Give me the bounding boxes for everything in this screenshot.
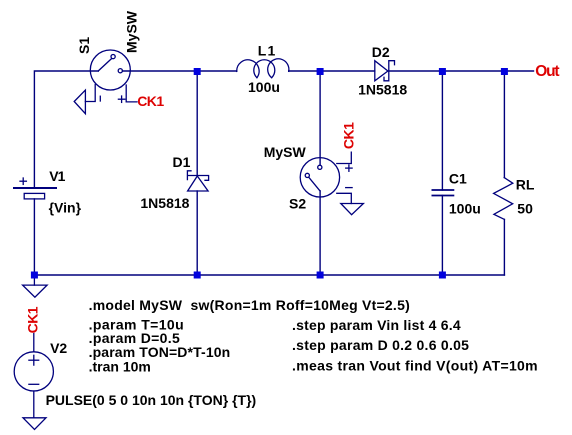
wire D1 top bbox=[196, 71, 198, 176]
value 100u of C1 bbox=[449, 201, 481, 217]
wire RL top bbox=[503, 71, 505, 178]
wire C1 bottom bbox=[441, 196, 443, 276]
label C1 bbox=[449, 171, 467, 187]
directive .param TON bbox=[89, 344, 231, 360]
junction top rail / RL bbox=[501, 68, 508, 75]
svg-text:1N5818: 1N5818 bbox=[358, 82, 407, 98]
junction top rail / D1 bbox=[194, 68, 201, 75]
svg-text:C1: C1 bbox=[449, 171, 467, 187]
svg-text:S1: S1 bbox=[76, 37, 92, 54]
label MySW of S2 bbox=[264, 144, 307, 160]
switch S1 body U1 bbox=[85, 50, 137, 102]
label D1 bbox=[173, 154, 191, 170]
junction top rail / C1 bbox=[439, 68, 446, 75]
svg-text:L1: L1 bbox=[258, 43, 277, 59]
junction bottom rail / S2 bbox=[317, 272, 324, 279]
capacitor C1 bbox=[432, 190, 453, 196]
net label CK1 at S1 bbox=[137, 93, 164, 109]
directive .param D bbox=[89, 330, 181, 346]
value {Vin} bbox=[49, 200, 82, 216]
wire top-left from V1 plus up and right to S1 bbox=[34, 71, 98, 188]
wire D1 bottom bbox=[196, 191, 198, 275]
junction top rail / S2 bbox=[317, 68, 324, 75]
wire bottom rail bbox=[34, 274, 504, 276]
net label Out bbox=[535, 63, 559, 80]
svg-text:.step param Vin list 4 6.4: .step param Vin list 4 6.4 bbox=[292, 317, 461, 333]
wire L1 right to D2 anode bbox=[289, 70, 375, 72]
svg-text:V2: V2 bbox=[50, 340, 67, 356]
svg-text:CK1: CK1 bbox=[25, 306, 41, 333]
net label CK1 at S2 bbox=[341, 122, 357, 149]
svg-text:D2: D2 bbox=[372, 44, 390, 60]
switch S2 body bbox=[300, 152, 352, 203]
label V2 bbox=[50, 340, 67, 356]
ground below V2 bbox=[23, 418, 46, 430]
svg-text:.step param D 0.2 0.6 0.05: .step param D 0.2 0.6 0.05 bbox=[292, 337, 469, 353]
label V1 bbox=[49, 168, 65, 184]
svg-text:D1: D1 bbox=[173, 154, 191, 170]
value 1N5818 of D2 bbox=[358, 82, 407, 98]
resistor RL bbox=[494, 178, 513, 220]
ground at S2 control bbox=[341, 204, 364, 215]
svg-text:.model MySW sw(Ron=1m Roff=10: .model MySW sw(Ron=1m Roff=10Meg Vt=2.5) bbox=[89, 297, 410, 313]
directive .model bbox=[89, 297, 410, 313]
svg-text:.tran 10m: .tran 10m bbox=[89, 359, 151, 375]
label D2 bbox=[372, 44, 390, 60]
junction bottom rail / ground bbox=[31, 272, 38, 279]
svg-text:RL: RL bbox=[516, 177, 535, 193]
ground at S1 control (rotated) bbox=[74, 90, 85, 114]
svg-text:MySW: MySW bbox=[124, 10, 140, 53]
voltage source V2 bbox=[14, 334, 53, 418]
svg-text:V1: V1 bbox=[49, 168, 65, 184]
value 1N5818 of D1 bbox=[140, 195, 189, 211]
wire S2 top bbox=[319, 71, 321, 165]
wire D2 cathode to Out bbox=[389, 70, 534, 72]
svg-text:100u: 100u bbox=[248, 79, 280, 95]
svg-text:MySW: MySW bbox=[264, 144, 307, 160]
inductor L1 bbox=[237, 59, 289, 78]
wire RL bottom bbox=[503, 219, 505, 275]
directive .step D bbox=[292, 337, 469, 353]
label RL bbox=[516, 177, 535, 193]
junction bottom rail / D1 bbox=[194, 272, 201, 279]
svg-text:CK1: CK1 bbox=[341, 122, 357, 149]
diode D2 bbox=[375, 61, 395, 81]
wire C1 top bbox=[441, 71, 443, 190]
value 100u of L1 bbox=[248, 79, 280, 95]
svg-text:.meas tran Vout find V(out) AT: .meas tran Vout find V(out) AT=10m bbox=[292, 357, 538, 373]
wire S2 bottom bbox=[319, 191, 321, 275]
diode D1 bbox=[187, 171, 208, 191]
junction bottom rail / C1 bbox=[439, 272, 446, 279]
svg-text:CK1: CK1 bbox=[137, 93, 164, 109]
directive .tran bbox=[89, 359, 151, 375]
label L1 bbox=[258, 43, 277, 59]
svg-text:S2: S2 bbox=[289, 196, 306, 212]
value PULSE of V2 bbox=[46, 392, 257, 408]
value 50 of RL bbox=[517, 201, 533, 217]
net label CK1 at V2 bbox=[25, 306, 41, 333]
svg-text:{Vin}: {Vin} bbox=[49, 200, 82, 216]
svg-text:Out: Out bbox=[535, 63, 559, 80]
svg-text:100u: 100u bbox=[449, 201, 481, 217]
label MySW of S1 bbox=[124, 10, 140, 53]
directive .param T bbox=[89, 317, 184, 333]
svg-text:50: 50 bbox=[517, 201, 533, 217]
svg-text:PULSE(0 5 0 10n 10n {TON} {T}): PULSE(0 5 0 10n 10n {TON} {T}) bbox=[46, 392, 257, 408]
directive .step Vin bbox=[292, 317, 461, 333]
ground below V1 bottom rail bbox=[23, 275, 47, 297]
svg-text:1N5818: 1N5818 bbox=[140, 195, 189, 211]
wire V1 minus down to bottom rail bbox=[33, 199, 35, 275]
wire S1 right to L1 left bbox=[122, 70, 236, 72]
label S1 bbox=[76, 37, 92, 54]
voltage source V1 battery bbox=[14, 178, 56, 199]
directive .meas bbox=[292, 357, 538, 373]
label S2 bbox=[289, 196, 306, 212]
